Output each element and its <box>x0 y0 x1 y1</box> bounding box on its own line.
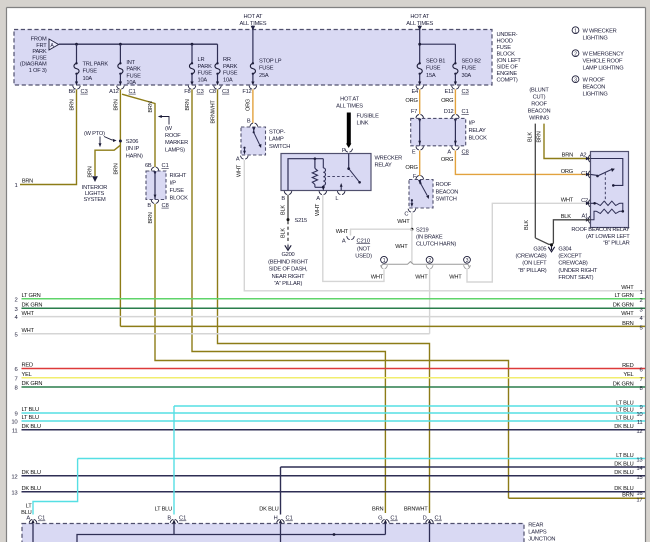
svg-text:BEACON: BEACON <box>528 109 551 115</box>
svg-text:H: H <box>274 516 278 522</box>
svg-text:BRN: BRN <box>22 179 33 185</box>
svg-text:S206: S206 <box>126 139 138 145</box>
svg-text:L: L <box>335 196 338 202</box>
svg-text:C3: C3 <box>81 89 88 95</box>
wire R14 DK BLU (to col H) <box>281 466 646 468</box>
svg-text:2: 2 <box>574 51 577 57</box>
svg-text:10: 10 <box>636 412 643 418</box>
svg-text:(IN IP: (IN IP <box>126 146 140 152</box>
svg-text:ORG: ORG <box>561 169 573 175</box>
wire 2 LT GRN <box>22 298 646 300</box>
svg-text:BRN: BRN <box>113 163 119 174</box>
svg-text:ROOF: ROOF <box>436 182 452 188</box>
svg-text:LIGHTING: LIGHTING <box>583 35 608 41</box>
svg-text:B6: B6 <box>68 89 75 95</box>
svg-text:FUSE: FUSE <box>170 188 185 194</box>
svg-text:(ON LEFT: (ON LEFT <box>522 261 547 267</box>
svg-text:LT: LT <box>26 504 33 510</box>
svg-text:FRT: FRT <box>36 43 47 49</box>
svg-text:2: 2 <box>428 258 431 264</box>
svg-text:BRN: BRN <box>185 99 191 110</box>
svg-text:9: 9 <box>639 405 642 411</box>
wire 8 DK GRN <box>22 386 646 388</box>
svg-text:15: 15 <box>636 475 643 481</box>
svg-text:(AT LOWER LEFT: (AT LOWER LEFT <box>586 234 630 240</box>
svg-text:WHT: WHT <box>336 229 349 235</box>
svg-text:1 OF 3): 1 OF 3) <box>29 68 47 74</box>
seo b2 fuse <box>453 62 458 75</box>
splitter with branches 1 2 3 <box>381 262 469 267</box>
col A LT BLU <box>33 459 78 515</box>
svg-text:DK GRN: DK GRN <box>22 302 43 308</box>
branch 2 WHT down <box>429 269 431 334</box>
svg-text:BLOCK: BLOCK <box>469 136 488 142</box>
svg-text:C1: C1 <box>129 89 136 95</box>
wrecker A WHT loop to branch 1 <box>323 195 384 281</box>
int park fuse <box>119 44 121 63</box>
wire BLK S215 to G200 <box>287 221 289 244</box>
svg-text:2: 2 <box>14 297 17 303</box>
svg-text:WRECKER: WRECKER <box>375 155 403 161</box>
splice S219 <box>410 228 413 231</box>
svg-text:BRN: BRN <box>70 99 76 110</box>
wire 13/16 DK BLU <box>22 491 646 493</box>
svg-text:BRNWHT: BRNWHT <box>211 100 217 124</box>
svg-text:WHT: WHT <box>395 244 408 250</box>
wire 4 WHT <box>22 316 646 318</box>
branch 3 WHT to relay C2 <box>467 203 591 282</box>
svg-text:“B” PILLAR: “B” PILLAR <box>603 240 630 246</box>
svg-text:LT BLU: LT BLU <box>616 407 634 413</box>
svg-text:PARK: PARK <box>223 64 238 70</box>
svg-text:BRN: BRN <box>562 153 573 159</box>
wrecker relay bottom connectors <box>284 191 292 194</box>
svg-text:SYSTEM: SYSTEM <box>83 197 106 203</box>
svg-text:13: 13 <box>636 458 643 464</box>
wire 9/10 LT BLU <box>22 412 646 414</box>
svg-text:FUSE: FUSE <box>198 71 213 77</box>
svg-text:LT BLU: LT BLU <box>22 415 40 421</box>
svg-text:LT GRN: LT GRN <box>22 293 41 299</box>
stop lp fuse <box>250 62 255 75</box>
svg-text:(BLUNT: (BLUNT <box>529 88 549 94</box>
svg-text:LAMPS: LAMPS <box>528 530 547 536</box>
wire 3 DK GRN <box>22 307 646 309</box>
svg-text:C1: C1 <box>179 516 186 522</box>
seo b1 fuse <box>417 62 422 75</box>
svg-text:HARN): HARN) <box>126 153 143 159</box>
svg-text:LT BLU: LT BLU <box>616 400 634 406</box>
svg-text:A1: A1 <box>581 213 588 219</box>
svg-text:7: 7 <box>14 376 17 382</box>
svg-text:E11: E11 <box>444 89 453 95</box>
svg-text:C8: C8 <box>209 89 216 95</box>
fuse box bottom connectors <box>73 82 81 90</box>
svg-text:DK BLU: DK BLU <box>259 506 278 512</box>
svg-text:WHT: WHT <box>397 219 410 225</box>
svg-text:BLK: BLK <box>280 205 286 215</box>
svg-text:ALL TIMES: ALL TIMES <box>336 104 363 110</box>
svg-text:VEHICLE ROOF: VEHICLE ROOF <box>583 58 623 64</box>
svg-text:PARK: PARK <box>198 64 213 70</box>
svg-text:W EMERGENCY: W EMERGENCY <box>583 51 625 57</box>
svg-text:C1: C1 <box>462 109 469 115</box>
svg-text:HOOD: HOOD <box>497 39 513 45</box>
svg-text:C1: C1 <box>162 163 169 169</box>
svg-text:13: 13 <box>11 490 18 496</box>
svg-text:G200: G200 <box>281 252 294 258</box>
svg-text:BEACON: BEACON <box>436 189 459 195</box>
svg-text:(EXCEPT: (EXCEPT <box>558 254 582 260</box>
svg-text:C1: C1 <box>435 516 442 522</box>
svg-text:F8: F8 <box>184 89 190 95</box>
svg-text:S215: S215 <box>295 218 307 224</box>
svg-text:C1: C1 <box>390 516 397 522</box>
svg-text:DK BLU: DK BLU <box>22 424 41 430</box>
legend notes 1 2 3 <box>572 27 579 34</box>
svg-text:ORG: ORG <box>405 165 417 171</box>
(W ROOF MARKER LAMPS) callout <box>161 117 169 125</box>
branch to interior lights <box>95 145 120 176</box>
svg-text:17: 17 <box>636 498 642 504</box>
svg-text:BLOCK: BLOCK <box>170 196 189 202</box>
svg-text:A: A <box>26 516 30 522</box>
svg-text:FUSE: FUSE <box>426 66 441 72</box>
svg-text:C8: C8 <box>462 149 469 155</box>
ground G200 <box>285 245 291 251</box>
svg-text:BLK: BLK <box>528 132 534 142</box>
svg-text:COMPT): COMPT) <box>497 78 518 84</box>
svg-text:RED: RED <box>622 363 633 369</box>
wire 6 RED <box>22 368 646 370</box>
svg-text:HOT AT: HOT AT <box>244 14 263 20</box>
svg-text:BLK: BLK <box>524 220 530 230</box>
wire R5 BRN (from A12 col) <box>120 325 645 327</box>
svg-text:BRN: BRN <box>622 321 633 327</box>
svg-text:FRONT SEAT): FRONT SEAT) <box>558 275 593 281</box>
svg-text:FUSIBLE: FUSIBLE <box>357 113 380 119</box>
svg-text:A: A <box>236 156 240 162</box>
svg-text:B: B <box>147 203 151 209</box>
svg-text:12: 12 <box>11 474 17 480</box>
svg-text:CUT): CUT) <box>533 95 546 101</box>
splice S215 <box>287 218 290 221</box>
svg-text:LAMP LIGHTING: LAMP LIGHTING <box>583 65 624 71</box>
svg-text:ORG: ORG <box>246 99 252 111</box>
svg-text:(DIAGRAM: (DIAGRAM <box>20 62 47 68</box>
svg-text:D12: D12 <box>444 109 454 115</box>
svg-text:WHT: WHT <box>449 274 462 280</box>
svg-text:C3: C3 <box>462 89 469 95</box>
svg-text:RELAY: RELAY <box>469 128 487 134</box>
svg-text:PARK: PARK <box>126 67 141 73</box>
col B LT BLU <box>173 406 175 515</box>
svg-text:INT: INT <box>126 60 135 66</box>
svg-text:30A: 30A <box>462 73 472 79</box>
svg-text:ORG: ORG <box>405 98 417 104</box>
svg-text:15A: 15A <box>426 73 436 79</box>
rr park fuse <box>217 44 219 63</box>
svg-text:BLOCK: BLOCK <box>497 52 516 58</box>
svg-text:C1: C1 <box>286 516 293 522</box>
wire C8 BRNWHT <box>218 89 430 513</box>
svg-text:C3: C3 <box>197 89 204 95</box>
E11->D12 ORG wire <box>454 89 456 114</box>
svg-text:(BEHIND RIGHT: (BEHIND RIGHT <box>268 259 309 265</box>
svg-text:YEL: YEL <box>623 372 633 378</box>
svg-text:C8: C8 <box>162 203 169 209</box>
svg-text:STOP-: STOP- <box>269 129 286 135</box>
svg-text:BRN: BRN <box>113 99 119 110</box>
svg-text:BRNWHT: BRNWHT <box>404 506 428 512</box>
svg-text:C: C <box>404 211 408 217</box>
svg-text:WHT: WHT <box>315 203 321 216</box>
svg-text:WHT: WHT <box>371 274 384 280</box>
svg-text:MARKER: MARKER <box>165 140 188 146</box>
wrecker relay box <box>281 154 371 191</box>
wire B6 BRN to left edge (wire 1) <box>20 89 77 184</box>
svg-text:B: B <box>247 118 251 124</box>
svg-text:RR: RR <box>223 57 231 63</box>
svg-text:FUSE: FUSE <box>462 66 477 72</box>
fusible link <box>347 113 351 145</box>
svg-text:10: 10 <box>11 420 18 426</box>
svg-text:LT BLU: LT BLU <box>616 453 634 459</box>
svg-text:SIDE OF: SIDE OF <box>497 65 519 71</box>
svg-text:G: G <box>378 516 382 522</box>
underhood fuse block (dashed box) <box>14 30 492 86</box>
svg-text:A: A <box>342 238 346 244</box>
svg-text:NEAR RIGHT: NEAR RIGHT <box>272 274 306 280</box>
svg-text:LR: LR <box>198 57 205 63</box>
splice S206 <box>119 140 122 143</box>
E -> roof beacon switch ORG <box>419 151 421 177</box>
svg-text:14: 14 <box>636 466 643 472</box>
svg-text:CREWCAB): CREWCAB) <box>558 261 588 267</box>
svg-text:B: B <box>167 516 171 522</box>
svg-text:WHT: WHT <box>621 311 634 317</box>
svg-text:DK GRN: DK GRN <box>613 381 634 387</box>
svg-text:BLK: BLK <box>280 228 286 238</box>
svg-text:A: A <box>316 196 320 202</box>
svg-text:LAMPS): LAMPS) <box>165 147 185 153</box>
C210 stub <box>351 229 412 235</box>
svg-text:7: 7 <box>639 377 642 383</box>
wire 11/12 DK BLU <box>22 429 646 431</box>
E4->F7 ORG wire <box>419 89 421 114</box>
svg-text:DK BLU: DK BLU <box>614 461 633 467</box>
svg-text:(ON LEFT: (ON LEFT <box>497 58 522 64</box>
svg-text:ROOF: ROOF <box>165 133 181 139</box>
svg-text:DK GRN: DK GRN <box>613 303 634 309</box>
svg-text:G304: G304 <box>558 246 571 252</box>
relay internals <box>591 159 623 186</box>
svg-text:ENGINE: ENGINE <box>497 71 518 77</box>
svg-text:A12: A12 <box>109 89 119 95</box>
svg-text:(IN BRAKE: (IN BRAKE <box>416 235 443 241</box>
park lamp bus wire <box>59 43 218 45</box>
svg-text:WHT: WHT <box>621 285 634 291</box>
svg-text:WHT: WHT <box>237 164 243 177</box>
svg-text:BRN: BRN <box>622 493 633 499</box>
wire A12 branch BRN (via right ip fuse block) <box>122 94 155 167</box>
wire R9 LT BLU (from col B) <box>174 405 645 407</box>
svg-text:RELAY: RELAY <box>375 163 393 169</box>
svg-text:(NOT: (NOT <box>357 246 371 252</box>
svg-text:WIRING: WIRING <box>529 116 549 122</box>
BRN below fuse block to row, then right <box>155 204 509 498</box>
svg-text:DK BLU: DK BLU <box>614 486 633 492</box>
svg-text:F12: F12 <box>242 89 251 95</box>
svg-text:BLK: BLK <box>561 214 572 220</box>
svg-text:BRN: BRN <box>537 131 543 142</box>
svg-text:F7: F7 <box>411 109 417 115</box>
svg-text:WHT: WHT <box>415 274 428 280</box>
svg-text:11: 11 <box>12 428 18 434</box>
svg-text:ROOF BEACON RELAY: ROOF BEACON RELAY <box>571 227 630 233</box>
svg-text:G305: G305 <box>533 246 546 252</box>
svg-text:9: 9 <box>14 412 17 418</box>
svg-text:FROM: FROM <box>31 37 47 43</box>
wire R17 BRN (from col BRN) <box>509 497 646 499</box>
svg-text:10A: 10A <box>126 80 136 86</box>
svg-text:3: 3 <box>574 77 577 83</box>
svg-text:16: 16 <box>636 491 643 497</box>
svg-text:DK BLU: DK BLU <box>22 486 41 492</box>
svg-text:E4: E4 <box>411 89 418 95</box>
svg-text:FUSE: FUSE <box>83 69 98 75</box>
svg-text:1: 1 <box>14 183 17 189</box>
svg-text:FUSE: FUSE <box>223 71 238 77</box>
svg-text:C210: C210 <box>357 238 371 244</box>
A1 BLK to ground <box>553 220 590 244</box>
svg-text:DK GRN: DK GRN <box>22 381 43 387</box>
blunt BLK diagonal to ground <box>535 238 553 245</box>
rear lamps junction box <box>22 524 524 542</box>
relay coil (resistor + coil parallel) <box>288 159 323 191</box>
svg-text:ROOF: ROOF <box>531 102 547 108</box>
wire A12 BRN down (int park) <box>119 89 121 326</box>
wire R13 LT BLU (to col A) <box>78 458 645 460</box>
svg-text:DK BLU: DK BLU <box>614 470 633 476</box>
svg-text:2: 2 <box>639 298 642 304</box>
svg-text:10A: 10A <box>83 76 93 82</box>
svg-text:1: 1 <box>574 28 577 34</box>
svg-text:C3: C3 <box>222 89 229 95</box>
svg-text:LT BLU: LT BLU <box>155 506 173 512</box>
svg-text:BRN: BRN <box>88 166 94 177</box>
svg-text:JUNCTION: JUNCTION <box>528 537 555 542</box>
relay switch <box>348 154 350 169</box>
svg-text:I/P: I/P <box>469 121 476 127</box>
wire F12 ORG <box>252 89 254 123</box>
svg-text:LT BLU: LT BLU <box>22 407 40 413</box>
svg-text:DK BLU: DK BLU <box>22 470 41 476</box>
svg-text:YEL: YEL <box>22 372 32 378</box>
svg-text:LT GRN: LT GRN <box>614 293 633 299</box>
svg-text:FUSE: FUSE <box>497 45 512 51</box>
svg-text:W ROOF: W ROOF <box>583 77 606 83</box>
svg-text:LAMP: LAMP <box>269 137 284 143</box>
svg-text:6B: 6B <box>145 163 152 169</box>
svg-text:PARK: PARK <box>32 49 47 55</box>
svg-text:BEACON: BEACON <box>583 84 606 90</box>
svg-text:USED): USED) <box>355 254 372 260</box>
svg-text:HOT AT: HOT AT <box>410 14 429 20</box>
svg-text:LINK: LINK <box>357 121 369 127</box>
svg-text:REAR: REAR <box>528 523 543 529</box>
svg-text:(CREWCAB): (CREWCAB) <box>516 254 547 260</box>
S219 down to splitter <box>411 229 413 264</box>
svg-text:RED: RED <box>22 363 33 369</box>
svg-text:LT BLU: LT BLU <box>616 415 634 421</box>
svg-text:WHT: WHT <box>561 197 574 203</box>
svg-text:W WRECKER: W WRECKER <box>583 28 617 34</box>
svg-text:BRN: BRN <box>148 212 154 223</box>
svg-text:FUSE: FUSE <box>259 66 274 72</box>
wires inside rear lamps box <box>32 524 34 542</box>
svg-text:UNDER-: UNDER- <box>497 32 518 38</box>
svg-text:BRN: BRN <box>372 506 383 512</box>
svg-text:ORG: ORG <box>441 98 453 104</box>
svg-text:SEO B1: SEO B1 <box>426 58 445 64</box>
svg-text:C1: C1 <box>38 516 45 522</box>
ip relay block box <box>411 118 466 145</box>
svg-text:FUSE: FUSE <box>126 73 141 79</box>
wrecker B BLK to G200 <box>287 195 289 220</box>
svg-text:10A: 10A <box>223 77 233 83</box>
svg-text:1: 1 <box>383 258 386 264</box>
svg-text:I/P: I/P <box>170 181 177 187</box>
stop lamp WHT wire to right edge (wire R1) <box>244 160 645 291</box>
svg-text:3: 3 <box>466 258 469 264</box>
svg-text:TRL PARK: TRL PARK <box>83 61 109 67</box>
svg-text:12: 12 <box>636 429 642 435</box>
roof beacon relay box <box>591 152 629 228</box>
svg-text:10A: 10A <box>198 77 208 83</box>
wire 10/11 LT BLU <box>22 420 646 422</box>
svg-text:ORG: ORG <box>441 157 453 163</box>
svg-text:WHT: WHT <box>22 311 35 317</box>
roof beacon switch <box>409 180 433 209</box>
col H DK BLU <box>280 467 282 515</box>
svg-text:LIGHTING: LIGHTING <box>583 91 608 97</box>
svg-text:(UNDER RIGHT: (UNDER RIGHT <box>558 268 597 274</box>
svg-text:SEO B2: SEO B2 <box>462 58 481 64</box>
ground G305 / G304 <box>548 246 554 252</box>
svg-text:BRN: BRN <box>148 101 154 112</box>
svg-text:(W: (W <box>165 126 173 132</box>
svg-text:“B” PILLAR): “B” PILLAR) <box>518 268 547 274</box>
svg-text:SWITCH: SWITCH <box>269 144 290 150</box>
wire F8 BRN <box>192 89 385 513</box>
svg-text:HOT AT: HOT AT <box>340 97 359 103</box>
svg-text:“A” PILLAR): “A” PILLAR) <box>274 281 303 287</box>
svg-text:A: A <box>447 149 451 155</box>
stop-lamp switch <box>241 127 266 155</box>
wire 7 YEL <box>22 377 646 379</box>
triangle A symbol <box>49 39 59 50</box>
svg-text:B: B <box>281 196 285 202</box>
svg-text:25A: 25A <box>259 73 269 79</box>
svg-text:1: 1 <box>639 290 642 296</box>
lr park fuse <box>191 44 193 63</box>
svg-text:DK BLU: DK BLU <box>614 424 633 430</box>
svg-text:SWITCH: SWITCH <box>436 197 457 203</box>
svg-text:CLUTCH HARN): CLUTCH HARN) <box>416 242 456 248</box>
svg-text:E: E <box>412 149 416 155</box>
svg-text:SIDE OF DASH,: SIDE OF DASH, <box>269 267 308 273</box>
